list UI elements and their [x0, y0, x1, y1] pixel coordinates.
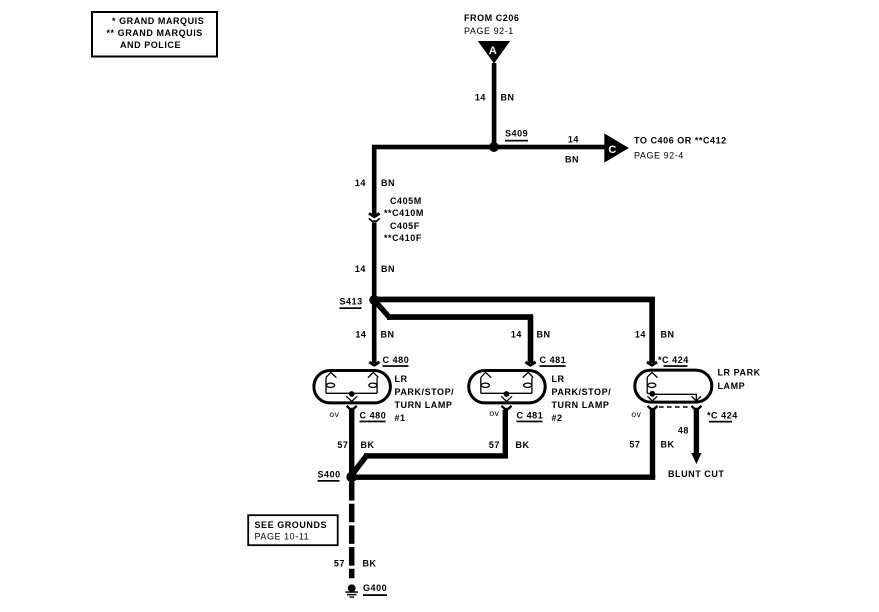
- svg-text:57: 57: [629, 440, 640, 450]
- svg-text:BK: BK: [361, 440, 375, 450]
- svg-text:BK: BK: [661, 440, 675, 450]
- svg-text:* GRAND MARQUIS: * GRAND MARQUIS: [112, 16, 204, 26]
- label splice S413: [340, 297, 363, 310]
- label connector C480 top: [383, 355, 410, 367]
- svg-text:*C 424: *C 424: [658, 355, 689, 365]
- svg-text:*C 424: *C 424: [707, 411, 738, 421]
- wire ground bus S400 to lamp3: [352, 475, 656, 480]
- svg-text:PAGE 10-11: PAGE 10-11: [255, 532, 310, 542]
- svg-text:TURN LAMP: TURN LAMP: [395, 400, 453, 410]
- lamp3 filament: [647, 372, 701, 401]
- wire blunt cut 48: [694, 410, 699, 454]
- wire S413 down to lamp1 feed: [372, 300, 377, 363]
- wire lamp1 ground down to S400: [349, 410, 354, 479]
- svg-text:FROM C206: FROM C206: [464, 13, 519, 23]
- svg-text:LR: LR: [552, 374, 565, 384]
- svg-text:BN: BN: [501, 93, 515, 103]
- wire lamp3 ground down to bus: [650, 410, 655, 478]
- svg-text:ov: ov: [329, 409, 339, 419]
- blunt cut arrow: [691, 453, 701, 464]
- label FROM C206 PAGE 92-1: [464, 13, 519, 36]
- lamp3 LR PARK LAMP body: [635, 370, 712, 402]
- svg-text:14: 14: [511, 330, 522, 340]
- svg-text:#1: #1: [395, 413, 406, 423]
- svg-text:G400: G400: [363, 583, 387, 593]
- svg-text:C 480: C 480: [383, 355, 410, 365]
- svg-text:S400: S400: [318, 470, 341, 480]
- lamp2 filaments: [481, 372, 533, 401]
- svg-text:BN: BN: [381, 330, 395, 340]
- svg-text:**C410M: **C410M: [384, 208, 424, 218]
- connector pin C480 male end at lamp1: [369, 362, 379, 365]
- wire down from corner to connector C405: [372, 145, 377, 216]
- label ground G400: [363, 583, 387, 596]
- lamp2 node dot: [504, 391, 510, 397]
- svg-text:C 480: C 480: [360, 411, 387, 421]
- note box GRAND MARQUIS: [92, 12, 217, 57]
- svg-text:**C410F: **C410F: [384, 233, 422, 243]
- label LR PARK LAMP: [718, 368, 761, 392]
- wire down to lamp2 feed: [528, 315, 534, 363]
- svg-text:SEE GROUNDS: SEE GROUNDS: [255, 520, 328, 530]
- label connector *C424 top: [658, 355, 689, 367]
- ground G400 symbol: [345, 584, 358, 597]
- svg-text:PARK/STOP/: PARK/STOP/: [552, 387, 612, 397]
- svg-text:C 481: C 481: [540, 355, 567, 365]
- label TO C406 OR **C412 PAGE 92-4: [634, 136, 727, 161]
- label LR PARK/STOP/TURN LAMP #2: [552, 374, 612, 423]
- connector socket C480 at lamp1 bottom: [347, 406, 357, 409]
- connector socket C424 left at lamp3 bottom: [648, 406, 658, 409]
- svg-text:LAMP: LAMP: [718, 381, 746, 391]
- svg-text:S413: S413: [340, 297, 363, 307]
- svg-text:#2: #2: [552, 413, 563, 423]
- connector C405M/C410M male half: [369, 213, 380, 216]
- splice junction S413: [369, 295, 379, 305]
- wire S413 right to lamp3 feed: [372, 297, 655, 303]
- connector pin C481 male end at lamp2: [525, 362, 535, 365]
- svg-text:57: 57: [489, 440, 500, 450]
- svg-text:AND POLICE: AND POLICE: [120, 40, 181, 50]
- svg-text:** GRAND MARQUIS: ** GRAND MARQUIS: [107, 28, 203, 38]
- label connector C481 bottom: [517, 411, 544, 423]
- wire dashed ground lead to G400: [349, 482, 355, 578]
- label connector C480 bottom: [360, 411, 387, 423]
- wire lamp2 ground diagonal to S400: [353, 456, 367, 474]
- svg-text:S409: S409: [505, 129, 528, 139]
- svg-text:BN: BN: [565, 155, 579, 165]
- svg-text:BN: BN: [381, 264, 395, 274]
- svg-text:BN: BN: [381, 178, 395, 188]
- svg-text:PARK/STOP/: PARK/STOP/: [395, 387, 455, 397]
- svg-text:14: 14: [355, 330, 366, 340]
- svg-text:ov: ov: [489, 408, 499, 418]
- svg-text:TO C406 OR **C412: TO C406 OR **C412: [634, 136, 727, 146]
- svg-text:TURN LAMP: TURN LAMP: [552, 400, 610, 410]
- svg-text:PAGE 92-1: PAGE 92-1: [464, 26, 514, 36]
- lamp1 filaments: [326, 372, 378, 401]
- svg-text:BK: BK: [363, 559, 377, 569]
- lamp3 node dot: [649, 391, 655, 397]
- svg-text:14: 14: [355, 178, 366, 188]
- svg-text:C: C: [608, 144, 616, 156]
- svg-text:14: 14: [355, 264, 366, 274]
- wire circuit 14 BN from A to S409: [492, 63, 497, 150]
- svg-text:LR PARK: LR PARK: [718, 368, 761, 378]
- svg-text:48: 48: [678, 426, 689, 436]
- lamp1 node dot: [349, 391, 355, 397]
- wire S413 diagonal branch to lamp2: [374, 300, 389, 317]
- svg-text:LR: LR: [395, 374, 408, 384]
- svg-text:C405M: C405M: [390, 196, 422, 206]
- dashed connector line C424: [659, 406, 690, 408]
- label LR PARK/STOP/TURN LAMP #1: [395, 374, 455, 423]
- svg-text:ov: ov: [631, 409, 641, 419]
- svg-text:BN: BN: [537, 330, 551, 340]
- svg-text:PAGE 92-4: PAGE 92-4: [634, 151, 684, 161]
- connector socket C424 right at lamp3 bottom: [691, 406, 701, 409]
- svg-text:14: 14: [635, 330, 646, 340]
- svg-text:C 481: C 481: [517, 411, 544, 421]
- wire from connector C405 down to S413: [372, 222, 377, 302]
- svg-text:A: A: [489, 45, 497, 57]
- label splice S409: [505, 129, 528, 142]
- svg-text:BLUNT CUT: BLUNT CUT: [668, 469, 724, 479]
- svg-text:57: 57: [337, 440, 348, 450]
- wire lamp2 ground horizontal: [364, 453, 508, 458]
- svg-text:C405F: C405F: [390, 221, 420, 231]
- wire horizontal to lamp2: [387, 314, 533, 320]
- wire corner down to lamp3: [649, 297, 655, 363]
- svg-text:14: 14: [568, 135, 579, 145]
- svg-text:BK: BK: [516, 440, 530, 450]
- splice junction S400: [346, 472, 357, 483]
- connector arrow A (from C206): [478, 41, 510, 64]
- wire lamp2 ground down: [503, 410, 508, 456]
- label connector C481 top: [540, 355, 567, 367]
- svg-text:57: 57: [334, 559, 345, 569]
- wire S409 left to corner: [372, 145, 496, 150]
- connector C405F/C410F female half: [369, 218, 380, 221]
- lamp1 LR PARK/STOP/TURN LAMP #1 body: [314, 371, 391, 403]
- connector pin C424 male end at lamp3: [647, 362, 657, 365]
- lamp2 LR PARK/STOP/TURN LAMP #2 body: [469, 371, 546, 403]
- connector arrow C (to C406): [604, 133, 629, 162]
- svg-text:14: 14: [475, 93, 486, 103]
- svg-text:BN: BN: [661, 330, 675, 340]
- connector socket C481 at lamp2 bottom: [502, 406, 512, 409]
- wire S409 right to arrow C: [494, 145, 606, 150]
- label splice S400: [318, 470, 341, 482]
- note box SEE GROUNDS: [248, 515, 338, 545]
- label connector *C424 bottom: [707, 411, 738, 423]
- splice junction S409: [489, 142, 499, 152]
